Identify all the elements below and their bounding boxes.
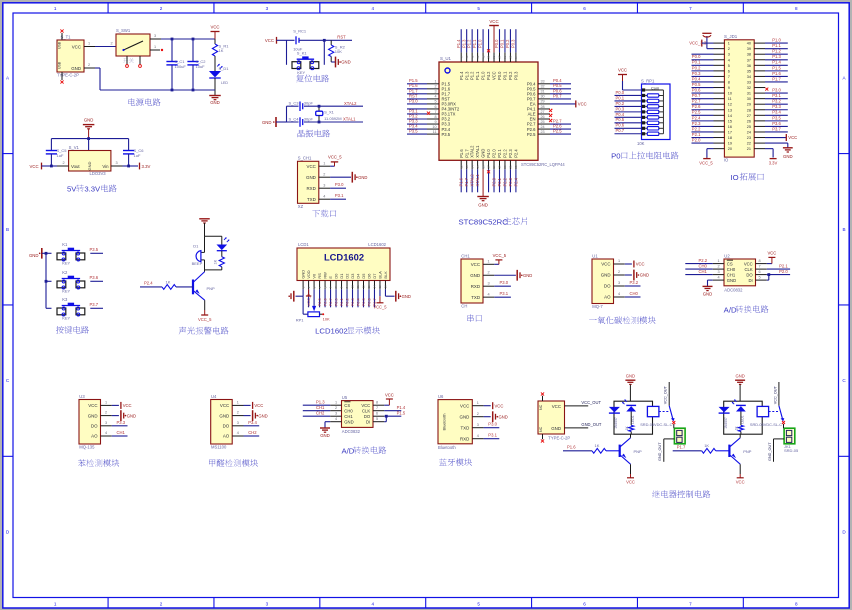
svg-text:VCC: VCC bbox=[361, 403, 370, 408]
svg-text:P0.0: P0.0 bbox=[333, 297, 338, 306]
wire key K3 to label bbox=[90, 307, 103, 309]
svg-text:2: 2 bbox=[63, 161, 65, 165]
svg-text:DO: DO bbox=[91, 424, 98, 429]
power port GND alarm top bbox=[199, 218, 210, 220]
svg-text:GND: GND bbox=[735, 374, 744, 379]
svg-text:P0.2: P0.2 bbox=[508, 71, 513, 80]
svg-text:21: 21 bbox=[509, 165, 513, 169]
svg-text:11.0592M: 11.0592M bbox=[324, 116, 342, 121]
svg-text:10uF: 10uF bbox=[196, 64, 206, 69]
wire VCC to Vout pin 2 bbox=[42, 165, 58, 167]
svg-text:CH1: CH1 bbox=[316, 405, 325, 410]
U2 right pin 7 stub bbox=[756, 268, 767, 270]
wire base resistor to transistor P1.6 bbox=[606, 450, 620, 452]
svg-text:GND: GND bbox=[640, 273, 649, 278]
svg-text:P1.3: P1.3 bbox=[316, 399, 325, 404]
wire S_JD1 left pin 10 bbox=[692, 92, 714, 94]
svg-text:38: 38 bbox=[492, 55, 496, 59]
S_JD1 right pin 32 stub bbox=[754, 87, 765, 89]
S_JD1 right pin 23 stub bbox=[754, 137, 765, 139]
svg-text:GND: GND bbox=[727, 278, 736, 283]
buzzer D1 BEEP bbox=[204, 236, 206, 252]
svg-text:GND: GND bbox=[344, 419, 353, 424]
svg-text:8: 8 bbox=[795, 602, 798, 607]
wire io pin2 to GND top bbox=[707, 48, 714, 50]
U2 right pin 8 stub bbox=[756, 263, 767, 265]
svg-text:2: 2 bbox=[105, 411, 107, 415]
svg-text:Vin: Vin bbox=[102, 164, 109, 169]
svg-text:K1: K1 bbox=[62, 242, 68, 247]
wire EA pin to VCC bbox=[550, 103, 576, 105]
svg-text:P2.3: P2.3 bbox=[692, 121, 701, 126]
svg-text:VCC_5: VCC_5 bbox=[198, 317, 212, 322]
S_JD1 right pin 25 stub bbox=[754, 125, 765, 127]
wire U2 DO bbox=[767, 274, 790, 276]
svg-text:3: 3 bbox=[488, 281, 490, 285]
svg-text:GND: GND bbox=[29, 253, 39, 258]
S_JD1 left pin 10 stub bbox=[714, 92, 725, 94]
svg-text:USB: USB bbox=[58, 41, 62, 49]
svg-text:GND: GND bbox=[478, 203, 488, 208]
svg-text:20: 20 bbox=[728, 147, 732, 151]
U2 left pin 3 stub bbox=[713, 274, 724, 276]
svg-text:GND: GND bbox=[88, 413, 98, 418]
power port VCC io right bbox=[785, 134, 787, 141]
svg-text:MS1100: MS1100 bbox=[211, 445, 227, 450]
svg-text:VCC: VCC bbox=[767, 251, 776, 256]
border column tick 6 bbox=[636, 2, 638, 13]
no-connect X io pin 32 bbox=[765, 88, 768, 91]
svg-text:27: 27 bbox=[747, 114, 751, 118]
resistor 1K alarm base bbox=[162, 285, 176, 290]
svg-text:P0.3: P0.3 bbox=[692, 71, 701, 76]
svg-text:U3: U3 bbox=[79, 394, 85, 399]
svg-text:2: 2 bbox=[237, 411, 239, 415]
wire S_JD1 right pin 37 bbox=[765, 59, 788, 61]
svg-text:VCC: VCC bbox=[489, 19, 498, 24]
U4 pin 4 stub bbox=[232, 435, 243, 437]
svg-text:D5: D5 bbox=[361, 274, 366, 279]
relay coil SRD-05VDC-SL-C P1.6 bbox=[647, 406, 659, 416]
U3 pin 1 stub bbox=[101, 404, 112, 406]
U1 pin 3 stub bbox=[614, 285, 625, 287]
wire U5 DI tied to DO bbox=[384, 421, 386, 423]
svg-text:8: 8 bbox=[728, 80, 730, 84]
wire LCD1 pin 8 bbox=[341, 289, 343, 307]
svg-text:TYPE-C-2P: TYPE-C-2P bbox=[548, 435, 570, 440]
svg-text:STC89C52RC_LQFP44: STC89C52RC_LQFP44 bbox=[521, 162, 565, 167]
no-connect X chip top pin 39 bbox=[487, 49, 490, 52]
svg-text:DO: DO bbox=[746, 272, 753, 277]
svg-text:GND: GND bbox=[87, 161, 92, 170]
svg-text:S_CH1: S_CH1 bbox=[298, 156, 312, 161]
svg-text:VCC: VCC bbox=[210, 24, 219, 29]
connector TYPE-C-2P output body bbox=[538, 401, 565, 434]
svg-text:DO: DO bbox=[604, 284, 611, 289]
wire U5 VCC pin bbox=[384, 404, 389, 406]
svg-text:P2.3: P2.3 bbox=[508, 177, 513, 186]
LCD1 LCD1602 body bbox=[297, 248, 390, 281]
svg-text:P2.1: P2.1 bbox=[779, 263, 788, 268]
svg-text:4: 4 bbox=[434, 95, 436, 99]
svg-text:P3.1: P3.1 bbox=[500, 291, 509, 296]
U2 left pin 1 stub bbox=[713, 263, 724, 265]
U2 left pin 4 stub bbox=[713, 279, 724, 281]
relay coil SRD-05VDC-SL-C P1.7 bbox=[757, 406, 769, 416]
svg-text:5: 5 bbox=[728, 64, 730, 68]
power port VCC U2 bbox=[768, 256, 775, 258]
junction U2 DO-DI bbox=[767, 273, 770, 276]
svg-text:S_X1: S_X1 bbox=[324, 110, 335, 115]
wire S_JD1 right pin 38 bbox=[765, 53, 788, 55]
power port VCC_5 alarm bbox=[201, 314, 208, 316]
relay frame outline P1.6 bbox=[614, 401, 653, 434]
svg-text:25: 25 bbox=[541, 120, 545, 124]
connector S_CH1 body bbox=[298, 161, 319, 203]
svg-text:P3.3: P3.3 bbox=[117, 420, 126, 425]
wire S_U1 top pin 37 bbox=[498, 29, 500, 52]
wire S_JD1 right pin 34 bbox=[765, 75, 788, 77]
S_RP1 pin square 8 bbox=[642, 127, 645, 130]
svg-text:1K: 1K bbox=[595, 443, 600, 448]
svg-text:B: B bbox=[842, 227, 845, 232]
S_U1 right pin 30 stub bbox=[538, 98, 550, 100]
svg-text:5V: 5V bbox=[67, 185, 77, 194]
wire S_JD1 right pin 24 bbox=[765, 131, 788, 133]
wire GND into bottom rail bbox=[276, 121, 287, 123]
key contact left bbox=[292, 62, 301, 69]
svg-text:15: 15 bbox=[476, 165, 480, 169]
svg-text:D7: D7 bbox=[372, 274, 377, 279]
wire U3 DO bbox=[112, 425, 128, 427]
U5 right pin 7 stub bbox=[373, 410, 384, 412]
svg-text:P1.7: P1.7 bbox=[464, 177, 469, 186]
svg-text:P0.5: P0.5 bbox=[692, 82, 701, 87]
svg-text:30pF: 30pF bbox=[304, 117, 314, 122]
svg-text:P0.5: P0.5 bbox=[361, 298, 366, 306]
wire LED column relay P1.7 bbox=[740, 412, 742, 426]
wire GND to rail bbox=[88, 129, 90, 139]
junction key bus middle bbox=[45, 280, 48, 283]
svg-text:26: 26 bbox=[747, 119, 751, 123]
S_U1 top pin 36 stub bbox=[504, 52, 506, 62]
S_V1 Vin pin 3 stub bbox=[111, 165, 123, 167]
svg-text:2: 2 bbox=[88, 63, 90, 67]
svg-text:GND_OUT: GND_OUT bbox=[768, 442, 772, 461]
svg-text:VCC_5: VCC_5 bbox=[328, 155, 342, 160]
svg-text:XTAL2: XTAL2 bbox=[470, 174, 475, 187]
svg-text:GND: GND bbox=[499, 414, 508, 419]
wire S_JD1 left pin 9 bbox=[692, 87, 714, 89]
S_RP1 pin square 6 bbox=[642, 116, 645, 119]
S_JD1 left pin 11 stub bbox=[714, 98, 725, 100]
svg-text:43: 43 bbox=[465, 55, 469, 59]
S_SW1 bottom pin stubs unconnected bbox=[126, 56, 128, 65]
svg-text:RP1: RP1 bbox=[296, 317, 305, 322]
svg-text:3: 3 bbox=[237, 421, 239, 425]
svg-text:VCC_OUT: VCC_OUT bbox=[664, 385, 668, 404]
wire U1 DO bbox=[625, 285, 641, 287]
svg-text:CS: CS bbox=[727, 261, 733, 266]
wire bus to key K2 bbox=[46, 280, 52, 282]
wire U2 GND pin bbox=[708, 279, 713, 281]
svg-text:3: 3 bbox=[728, 53, 730, 57]
U4 pin 1 stub bbox=[232, 404, 243, 406]
wire GND to top node bbox=[204, 223, 206, 236]
svg-text:VCC: VCC bbox=[736, 480, 745, 485]
svg-text:CS: CS bbox=[344, 403, 350, 408]
wire LCD1 pin 12 bbox=[362, 289, 364, 307]
svg-text:VCC: VCC bbox=[254, 403, 263, 408]
svg-text:11: 11 bbox=[356, 285, 360, 288]
flyback diode 1N4007 relay P1.6 bbox=[609, 407, 620, 413]
wire S_U1 top pin 43 bbox=[466, 29, 468, 52]
wire serial VCC to VCC_5 bbox=[494, 263, 499, 265]
wire U2 CS bbox=[685, 263, 712, 265]
power port GND bluetooth bbox=[492, 411, 494, 422]
svg-text:XTAL2: XTAL2 bbox=[344, 101, 357, 106]
wire terminal GND_OUT P1.6 bbox=[664, 438, 675, 440]
connector S_T1 TYPE-C-2P body bbox=[57, 40, 84, 72]
wire S_U1 left pin 10 bbox=[407, 128, 427, 130]
S_U1 right pin 23 stub bbox=[538, 133, 550, 135]
wire S_JD1 right pin 36 bbox=[765, 64, 788, 66]
S_RP1 pin square 4 bbox=[642, 105, 645, 108]
svg-text:KEY: KEY bbox=[62, 261, 70, 266]
resistor alarm 1K vertical bbox=[221, 251, 223, 257]
wire S_U1 left pin 1 bbox=[407, 83, 427, 85]
svg-text:K3: K3 bbox=[62, 297, 68, 302]
wire S_U1 left pin 3 bbox=[407, 93, 427, 95]
svg-text:P4.2: P4.2 bbox=[486, 71, 491, 80]
no-connect X relay contact P1.6 bbox=[672, 421, 675, 424]
svg-text:3.3V: 3.3V bbox=[84, 185, 101, 194]
border column tick 4 bbox=[425, 2, 427, 13]
svg-text:1N4007: 1N4007 bbox=[724, 417, 728, 429]
wire S_U1 bottom pin 15 bbox=[477, 169, 479, 192]
power port GND download bbox=[351, 172, 353, 183]
svg-text:4: 4 bbox=[488, 292, 490, 296]
svg-text:P0.3: P0.3 bbox=[511, 39, 516, 48]
svg-text:P1.0: P1.0 bbox=[481, 71, 486, 80]
wire rail to regulator GND pin bbox=[88, 139, 90, 151]
svg-text:AO: AO bbox=[223, 434, 230, 439]
svg-text:P3.7: P3.7 bbox=[772, 126, 781, 131]
svg-text:1N4007: 1N4007 bbox=[614, 417, 618, 429]
S_JD1 right pin 33 stub bbox=[754, 81, 765, 83]
wire XTAL1 bottom rail bbox=[280, 121, 299, 123]
S_U1 top pin 44 stub bbox=[460, 52, 462, 62]
svg-text:GND: GND bbox=[783, 154, 793, 159]
S_SW1 pin 1 stub with red dot bbox=[150, 49, 160, 51]
wire base input relay P1.7 bbox=[673, 450, 702, 452]
svg-text:A/D: A/D bbox=[341, 446, 354, 455]
svg-text:P1.5: P1.5 bbox=[772, 65, 781, 70]
key actuator bar bbox=[62, 278, 80, 280]
S_JD1 right pin 21 stub bbox=[754, 148, 765, 150]
U3 pin 4 stub bbox=[101, 435, 112, 437]
wire LCD1 pin 7 bbox=[335, 289, 337, 307]
svg-text:S_D1: S_D1 bbox=[219, 66, 230, 71]
svg-text:P1.6: P1.6 bbox=[459, 177, 464, 186]
LCD1 pin 11 stub bbox=[357, 281, 359, 290]
wire S_JD1 left pin 7 bbox=[692, 75, 714, 77]
no-connect X chip bottom pin 17 bbox=[487, 170, 490, 173]
S_U1 right pin 28 stub bbox=[538, 108, 550, 110]
svg-text:GND: GND bbox=[341, 60, 350, 65]
wire LED to ground bbox=[214, 78, 216, 95]
power port VCC at EA pin bbox=[575, 100, 577, 107]
S_JD1 left pin 12 stub bbox=[714, 103, 725, 105]
LCD1 pin 3 stub bbox=[313, 281, 315, 290]
svg-text:S_C4: S_C4 bbox=[288, 117, 299, 122]
wire S_JD1 right pin 39 bbox=[765, 48, 788, 50]
svg-text:PNP: PNP bbox=[207, 286, 216, 291]
svg-text:P2.1: P2.1 bbox=[497, 149, 502, 158]
LCD1 pin 10 stub bbox=[352, 281, 354, 290]
svg-text:VCC: VCC bbox=[30, 164, 39, 169]
connector S_JD1 body bbox=[724, 40, 754, 157]
svg-text:13: 13 bbox=[465, 165, 469, 169]
svg-text:P1.4: P1.4 bbox=[772, 60, 781, 65]
wire S_JD1 left pin 8 bbox=[692, 81, 714, 83]
wire collector relay P1.6 bbox=[630, 434, 632, 438]
svg-text:P0.1: P0.1 bbox=[616, 95, 625, 100]
svg-text:VCC: VCC bbox=[471, 262, 480, 267]
indicator LED relay P1.6 bbox=[626, 404, 636, 406]
svg-text:P3.6: P3.6 bbox=[772, 121, 781, 126]
svg-text:14: 14 bbox=[373, 285, 377, 289]
U3 pin 2 stub bbox=[101, 415, 112, 417]
svg-text:4: 4 bbox=[237, 431, 239, 435]
svg-text:1K: 1K bbox=[704, 443, 709, 448]
S_JD1 right pin 30 stub bbox=[754, 98, 765, 100]
svg-text:P2.3: P2.3 bbox=[508, 149, 513, 158]
svg-text:2: 2 bbox=[160, 602, 163, 607]
wire S_JD1 left pin 13 bbox=[692, 109, 714, 111]
power port GND serial bbox=[516, 270, 518, 281]
svg-text:1K: 1K bbox=[166, 280, 171, 285]
S_RP1 internal common rail bbox=[645, 89, 663, 91]
svg-text:P2.2: P2.2 bbox=[692, 126, 701, 131]
relay contact dashed link P1.6 bbox=[659, 411, 668, 413]
svg-text:PNP: PNP bbox=[634, 449, 643, 454]
svg-text:1uF: 1uF bbox=[57, 153, 64, 158]
svg-text:RST: RST bbox=[337, 34, 346, 39]
wire S_U1 bottom pin 13 bbox=[466, 169, 468, 192]
wire right branch down to key bbox=[323, 40, 325, 65]
terminal block JK relay P1.7 bbox=[784, 428, 795, 444]
svg-text:Vout: Vout bbox=[71, 164, 80, 169]
S_U1 bottom pin 20 stub bbox=[504, 160, 506, 169]
caption relay control circuit bbox=[652, 490, 659, 497]
svg-text:P1.0: P1.0 bbox=[478, 39, 483, 48]
svg-text:RW: RW bbox=[323, 272, 328, 279]
wire S_JD1 right pin 25 bbox=[765, 125, 788, 127]
svg-text:SRD-05: SRD-05 bbox=[784, 448, 799, 453]
svg-text:GND: GND bbox=[481, 149, 486, 158]
svg-text:P2.1: P2.1 bbox=[692, 132, 701, 137]
wire S_U1 bottom pin 22 bbox=[515, 169, 517, 192]
S_U1 bottom pin 13 stub bbox=[466, 160, 468, 169]
svg-text:5: 5 bbox=[434, 100, 436, 104]
svg-text:CH1: CH1 bbox=[461, 253, 470, 258]
svg-text:S_K1: S_K1 bbox=[297, 50, 308, 55]
S_U1 left pin 5 stub bbox=[427, 103, 439, 105]
wire S_JD1 left pin 14 bbox=[692, 114, 714, 116]
svg-text:P0.2: P0.2 bbox=[616, 101, 625, 106]
svg-text:P3.6: P3.6 bbox=[90, 275, 99, 280]
svg-text:VCC: VCC bbox=[72, 44, 81, 49]
svg-text:P1.4: P1.4 bbox=[397, 405, 406, 410]
svg-text:P3.0: P3.0 bbox=[772, 87, 781, 92]
svg-text:VCC: VCC bbox=[601, 262, 610, 267]
junction crystal top bbox=[318, 105, 321, 108]
junction at C1 top bbox=[171, 38, 174, 41]
wire U2 DI tied to DO bbox=[767, 279, 769, 281]
S_U1 left pin 8 stub bbox=[427, 118, 439, 120]
wire S_U1 bottom pin 12 bbox=[460, 169, 462, 192]
wire S_JD1 right pin 28 bbox=[765, 109, 788, 111]
svg-text:GND: GND bbox=[402, 294, 411, 299]
svg-text:ADC0832: ADC0832 bbox=[342, 429, 361, 434]
wire U6 GND bbox=[484, 416, 491, 418]
S_U1 left pin 1 stub bbox=[427, 83, 439, 85]
wire S_U1 right pin 31 bbox=[550, 93, 571, 95]
wire alarm top node to LED branch bbox=[205, 235, 222, 237]
svg-text:3: 3 bbox=[434, 90, 436, 94]
svg-text:10: 10 bbox=[432, 125, 436, 129]
S_U1 left pin 10 stub bbox=[427, 128, 439, 130]
svg-text:P2.4: P2.4 bbox=[692, 115, 701, 120]
S_U1 left pin 9 stub bbox=[427, 123, 439, 125]
svg-text:P3.0: P3.0 bbox=[335, 182, 344, 187]
svg-text:10K: 10K bbox=[335, 49, 342, 54]
svg-text:XTAL2: XTAL2 bbox=[470, 145, 475, 158]
caption serial port bbox=[467, 314, 474, 322]
wire terminal GND_OUT P1.7 bbox=[774, 438, 785, 440]
wire S_U1 right pin 30 bbox=[550, 98, 571, 100]
svg-text:P3.2: P3.2 bbox=[772, 99, 781, 104]
svg-text:P0.0: P0.0 bbox=[692, 54, 701, 59]
U5 right pin 8 stub bbox=[373, 404, 384, 406]
power port GND U5 bbox=[320, 427, 330, 429]
svg-text:P0.2: P0.2 bbox=[505, 39, 510, 48]
wire VCC to capacitor bbox=[277, 39, 295, 41]
power port VCC_5 download bbox=[331, 161, 338, 163]
connector U3 body bbox=[79, 400, 101, 445]
svg-text:P1.7: P1.7 bbox=[772, 76, 781, 81]
S_JD1 right pin 40 stub bbox=[754, 42, 765, 44]
LCD1 pin 9 stub bbox=[346, 281, 348, 290]
svg-text:13: 13 bbox=[367, 285, 371, 289]
svg-text:P2.2: P2.2 bbox=[502, 177, 507, 186]
svg-text:D2: D2 bbox=[345, 274, 350, 279]
U4 pin 3 stub bbox=[232, 425, 243, 427]
S_U1 right pin 31 stub bbox=[538, 93, 550, 95]
relay contact common wire P1.7 bbox=[778, 382, 780, 406]
wire U1 AO bbox=[625, 296, 641, 298]
wire XTAL2 top rail bbox=[287, 105, 299, 107]
svg-text:4: 4 bbox=[371, 6, 374, 11]
wire S_JD1 right pin 40 bbox=[765, 42, 788, 44]
S_T1 VCC pin 1 stub bbox=[84, 46, 95, 48]
S_JD1 right pin 27 stub bbox=[754, 114, 765, 116]
svg-text:36: 36 bbox=[747, 64, 751, 68]
svg-text:7: 7 bbox=[759, 264, 761, 268]
wire S_U1 left pin 6 bbox=[407, 108, 427, 110]
svg-text:3: 3 bbox=[335, 412, 337, 416]
